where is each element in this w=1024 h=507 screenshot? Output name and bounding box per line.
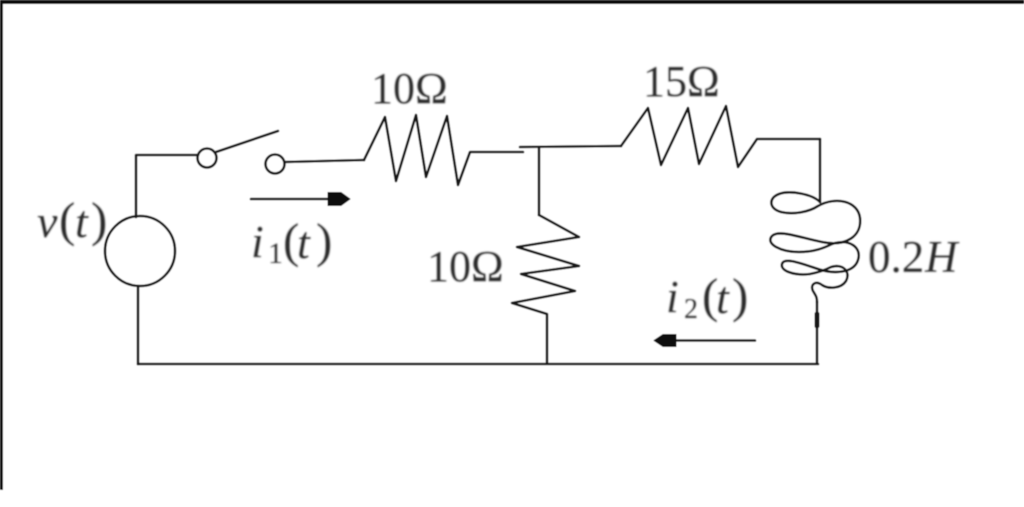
wire node vertical down to R2 (538, 147, 541, 215)
label v(t) (37, 192, 107, 247)
svg-text:t: t (716, 272, 730, 323)
svg-text:): ) (91, 192, 107, 247)
resistor R2 10ohm vertical (512, 215, 579, 363)
inductor L1 coil (770, 192, 860, 302)
svg-text:i: i (251, 216, 264, 267)
switch S1 (198, 131, 285, 174)
arrowhead mark on inductor wire (815, 314, 820, 326)
svg-text:0.2: 0.2 (868, 232, 924, 282)
wire from source top to switch (136, 155, 198, 217)
svg-text:): ) (316, 213, 332, 268)
svg-text:(: ( (59, 192, 75, 247)
label 0.2H (868, 232, 960, 282)
current arrow i1 (251, 193, 350, 206)
svg-text:t: t (75, 196, 89, 247)
svg-text:H: H (924, 232, 960, 282)
wire right vertical to inductor (819, 139, 822, 202)
svg-text:10Ω: 10Ω (371, 64, 448, 113)
label i1(t) (251, 213, 332, 270)
svg-text:15Ω: 15Ω (643, 57, 720, 106)
svg-text:): ) (732, 268, 748, 323)
svg-text:i: i (666, 271, 679, 322)
resistor R3 15ohm (621, 106, 820, 167)
wire from source bottom to bottom wire (137, 287, 140, 364)
svg-text:v: v (37, 196, 58, 247)
label i2(t) (666, 268, 748, 325)
current arrow i2 (654, 335, 755, 347)
wire node horizontal to R3 (520, 146, 621, 147)
svg-text:t: t (297, 217, 311, 268)
svg-text:10Ω: 10Ω (427, 242, 504, 291)
wire from switch to R1 (285, 160, 364, 162)
bottom wire (138, 363, 818, 366)
voltage source V1 circle (105, 216, 175, 286)
resistor R1 10ohm horizontal (364, 115, 523, 185)
wire inductor tail to bottom (816, 302, 819, 363)
svg-text:1: 1 (268, 237, 283, 270)
svg-text:2: 2 (684, 294, 698, 325)
